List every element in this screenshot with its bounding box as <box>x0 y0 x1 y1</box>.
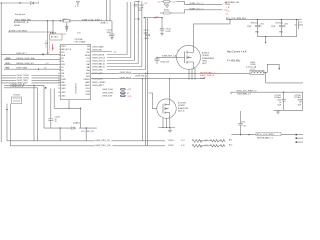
IC bottom stub x69 <box>68 100 70 109</box>
ground symbol Q2 <box>168 128 172 133</box>
power flag PWR1 <box>75 1 80 8</box>
wire y108.3 <box>54 107 80 109</box>
wire vertical x60.1 to row1 <box>59 128 61 141</box>
diode D1 <box>31 2 39 5</box>
svg-text:(SOT): (SOT) <box>202 63 207 65</box>
svg-text:C7044 1UF: C7044 1UF <box>160 62 170 64</box>
svg-text:ACTIVE/LOW__A: ACTIVE/LOW__A <box>14 21 29 24</box>
wire y128.1 bottom-left net <box>44 127 97 129</box>
capacitor C6 column x162 <box>160 17 171 36</box>
value red tick vertical <box>52 44 54 51</box>
svg-text:CHGR_ACP: CHGR_ACP <box>92 72 103 75</box>
svg-text:+.05: +.05 <box>46 53 50 55</box>
svg-text:GND: GND <box>61 96 66 98</box>
svg-text:*6.78: *6.78 <box>127 96 131 98</box>
svg-text:__SOME_LOG_#_#: __SOME_LOG_#_# <box>187 3 204 5</box>
svg-text:(SOT-3): (SOT-3) <box>178 110 185 112</box>
wire fan vertical to pin row4 <box>107 2 138 64</box>
svg-text:MICROBIAL_1.0: MICROBIAL_1.0 <box>237 92 250 95</box>
wire vertical x147.5 cap column down <box>147 18 149 74</box>
svg-text:BT011: BT011 <box>164 10 169 12</box>
svg-text:+0.9: +0.9 <box>155 16 159 18</box>
wire label2 to box <box>8 32 53 34</box>
left tight row y80.3 <box>1 79 60 82</box>
svg-text:SOME_LOGIC_SOMT_#: SOME_LOGIC_SOMT_# <box>82 19 102 21</box>
svg-text:«EN»: «EN» <box>5 68 10 70</box>
left net label row2 y59.4 <box>4 57 61 60</box>
svg-text:3.98: 3.98 <box>77 33 81 35</box>
svg-text:PB01: PB01 <box>61 46 65 48</box>
node junction x53 <box>52 20 53 21</box>
svg-text:+12: +12 <box>177 50 180 52</box>
left net label row1 y54.4 <box>1 53 60 56</box>
wire fan vertical v1 <box>106 0 108 21</box>
svg-text:GND: GND <box>61 92 66 94</box>
wire vertical x86.2 to row1 <box>85 128 87 141</box>
svg-text:BATP: BATP <box>85 81 90 84</box>
wire vertical x7 from cluster to bottom row1 <box>6 104 8 141</box>
net row ferrite 2 <box>102 92 129 95</box>
svg-text:BT7010: BT7010 <box>14 95 20 97</box>
component cluster lower-left <box>12 97 22 104</box>
svg-text:« CHGR_LVC_B: « CHGR_LVC_B <box>10 86 24 88</box>
IC U1 right pin names <box>83 46 90 96</box>
left tight row y75.5 <box>1 74 60 77</box>
svg-text:__SOME_LOG_#_#: __SOME_LOG_#_# <box>187 8 204 10</box>
wire fan vertical to pin row5 <box>107 1 142 66</box>
svg-text:45: 45 <box>127 93 129 95</box>
wire gate feed Q2 <box>149 93 157 109</box>
svg-text:F = 800 KHz: F = 800 KHz <box>227 60 241 63</box>
wire left sheet border vertical <box>0 3 2 142</box>
svg-text:CHRG06_CHGR_SDA: CHRG06_CHGR_SDA <box>16 57 35 60</box>
left tight row y82.9 <box>1 82 60 85</box>
inductor L1 <box>246 62 264 75</box>
svg-text:CHGR_CMSRC: CHGR_CMSRC <box>92 82 106 84</box>
svg-text:CRITICAL: CRITICAL <box>75 38 83 41</box>
svg-text:CHGR_CM08: CHGR_CM08 <box>16 68 27 70</box>
svg-text:BT0##_SYS_TERM_#: BT0##_SYS_TERM_# <box>257 134 275 136</box>
svg-text:A35: A35 <box>205 139 208 142</box>
wire source pins Q2 down <box>163 118 170 128</box>
wire source pins Q1 down <box>189 68 195 79</box>
svg-text:CMSRC: CMSRC <box>83 79 90 81</box>
svg-text:CHGR_ADPT: CHGR_ADPT <box>92 84 105 87</box>
left net label row4 y69.2 <box>4 68 61 70</box>
svg-text:IDPM: IDPM <box>86 94 91 96</box>
svg-text:15: 15 <box>58 88 60 90</box>
wire vertical mid x142.4 <box>141 79 143 141</box>
ground symbol cap group <box>276 110 280 114</box>
IC U1 left pin names <box>61 46 72 97</box>
svg-text:CHGR_SW_A: CHGR_SW_A <box>120 71 132 74</box>
svg-text:+4.2: +4.2 <box>113 52 117 54</box>
resistor R2 row1 <box>165 138 240 143</box>
svg-text:CHGR_TRKL_CH: CHGR_TRKL_CH <box>95 140 110 142</box>
wire drain Q1 up <box>194 20 231 46</box>
svg-text:+0.9: +0.9 <box>135 18 139 20</box>
svg-text:SCL: SCL <box>61 52 65 54</box>
svg-text:«SCL»: «SCL» <box>5 63 11 65</box>
wire vertical x80.5 <box>80 108 82 128</box>
svg-text:SW: SW <box>87 46 90 48</box>
capacitor C9 right edge vertical pair <box>295 21 304 30</box>
svg-text:SYS_PWR_DET: SYS_PWR_DET <box>81 131 95 133</box>
wire fan vertical to pin row6 <box>107 18 146 70</box>
svg-text:BT3704: BT3704 <box>50 33 56 35</box>
svg-text:17: 17 <box>58 96 60 98</box>
capacitor C5 gate <box>155 57 171 64</box>
svg-text:CHGR_SW_B: CHGR_SW_B <box>120 77 132 79</box>
left net label row3 y64.4 <box>4 63 61 65</box>
svg-text:+123: +123 <box>127 89 131 91</box>
corner texts top right <box>225 1 239 16</box>
wire y127.5 gnd rail <box>158 127 175 129</box>
svg-text:10: 10 <box>259 26 261 28</box>
node junction x47.4 <box>47 20 48 21</box>
annotation block red mid-right <box>200 71 215 79</box>
capacitor C8 bank2 <box>271 20 289 37</box>
net label row1 <box>95 139 112 142</box>
svg-text:+1.8: +1.8 <box>172 1 176 3</box>
svg-text:REGN: REGN <box>85 55 91 57</box>
svg-text:MICROBOARD_1.0: MICROBOARD_1.0 <box>257 136 273 139</box>
svg-text:GND: GND <box>145 38 150 40</box>
net wire N1 <box>177 2 227 5</box>
svg-text:3: 3 <box>59 52 60 54</box>
svg-text:14: 14 <box>58 85 60 87</box>
svg-text:2: 2 <box>59 49 60 51</box>
net label on row y78.7 second <box>135 75 148 78</box>
wire long row y78.7 <box>91 78 205 80</box>
wire vertical x10.3 from cluster to bottom row2 <box>9 104 11 146</box>
node junction on top wire <box>19 2 20 3</box>
wire gate feed Q1 <box>157 56 177 58</box>
svg-text:A#2: A#2 <box>229 143 232 146</box>
capacitor C2 top between fans <box>134 1 145 20</box>
node junction x60.3 <box>60 20 61 21</box>
svg-text:BT3704EVQ: BT3704EVQ <box>76 83 78 94</box>
wire post inductor bend <box>264 64 279 72</box>
svg-text:CHGR_IDPM: CHGR_IDPM <box>102 92 113 94</box>
svg-text:CHGR_BAT_A: CHGR_BAT_A <box>92 62 105 65</box>
wire stub with arrow x265.7 <box>265 37 267 42</box>
wire y92.2 <box>231 91 304 93</box>
svg-text:CHGR_TRKL_CH2: CHGR_TRKL_CH2 <box>95 145 110 147</box>
svg-text:+1.8: +1.8 <box>226 10 230 12</box>
wire fan vertical to pin row2 <box>107 2 131 58</box>
svg-text:SW: SW <box>87 49 90 51</box>
wire IC pin row y51.5 bst stub <box>91 51 112 53</box>
wire fan vertical to pin row1 <box>107 2 127 55</box>
svg-text:BLAH/12345: BLAH/12345 <box>178 107 188 110</box>
left tight row y77.9 <box>1 77 60 80</box>
wire long row y73.3 <box>91 72 250 74</box>
svg-text:D7(A01): D7(A01) <box>73 121 80 124</box>
svg-text:DM: DM <box>61 73 64 75</box>
svg-text:6: 6 <box>59 61 60 63</box>
wire fan vertical to pin row3 <box>107 2 135 61</box>
MOSFET Q1 ref text <box>202 53 215 65</box>
net label on row y78.7 <box>119 77 133 80</box>
wire rail continues to cap column <box>111 21 113 34</box>
wire cap bank bottom rail y36.6 <box>257 36 296 38</box>
svg-text:CHGR_GATE: CHGR_GATE <box>92 45 104 48</box>
svg-text:4: 4 <box>59 55 60 57</box>
net row ferrite 3 <box>102 95 131 98</box>
annotation tiny column <box>45 41 50 51</box>
svg-text:+_B*: +_B* <box>226 7 230 9</box>
resistor R1 series on rail <box>63 19 71 23</box>
svg-text:GND: GND <box>279 32 284 34</box>
diode zener D2 vertical <box>65 23 68 32</box>
svg-text:CHRG06_CHGR_SCL: CHRG06_CHGR_SCL <box>16 63 34 65</box>
net wire N2 <box>173 8 227 13</box>
wire top-left horizontal net <box>1 2 30 4</box>
svg-text:CHGR_BAT_B: CHGR_BAT_B <box>92 65 105 68</box>
MOSFET Q2 circle <box>157 99 176 118</box>
svg-text:GND: GND <box>255 32 260 34</box>
svg-text:CELL: CELL <box>86 88 91 90</box>
svg-text:«SDA»: «SDA» <box>5 57 11 60</box>
svg-text:9: 9 <box>59 70 60 72</box>
wire vertical mid x145.5 <box>145 73 147 146</box>
svg-text:C7V1: C7V1 <box>241 122 246 124</box>
IC U1 left pin numbers <box>58 46 60 97</box>
svg-text:BT07C02: BT07C02 <box>276 22 284 24</box>
svg-text:CHGR_ACN: CHGR_ACN <box>92 78 103 81</box>
svg-text:A#1: A#1 <box>229 138 232 141</box>
svg-text:1.1+08: 1.1+08 <box>200 77 206 79</box>
svg-text:ICHG: ICHG <box>86 91 91 93</box>
capacitor C10 on x240.6 <box>238 122 246 129</box>
rail R1 +1.8 top right <box>157 1 176 8</box>
bottom row1 y140.8 <box>7 140 240 142</box>
svg-text:4.40: 4.40 <box>181 145 185 147</box>
wire cap bank rail y19.7 <box>226 19 302 21</box>
svg-text:+SOMT_#: +SOMT_# <box>100 23 108 25</box>
wire y82.9 to right edge <box>266 72 303 83</box>
svg-text:10: 10 <box>284 26 286 28</box>
svg-text:CHGR_BST: CHGR_BST <box>92 49 103 51</box>
wire vertical x240.6 <box>240 111 242 135</box>
wire vertical x47.4 down to row1 <box>46 21 48 55</box>
svg-text:CHGR_SYS_A: CHGR_SYS_A <box>92 56 105 59</box>
svg-text:ONT_TRACE: ONT_TRACE <box>75 41 87 44</box>
svg-text:+1.8: +1.8 <box>157 1 161 3</box>
svg-text:A12: A12 <box>205 144 208 147</box>
wire drain Q2 up <box>169 79 171 99</box>
svg-text:PMID: PMID <box>61 85 66 87</box>
wire vertical x53 to box BT3704 <box>52 21 54 34</box>
svg-text:CHGR_SYS_B: CHGR_SYS_B <box>92 60 105 62</box>
capacitor C12 <box>294 92 303 110</box>
svg-text:BT004: BT004 <box>169 140 174 142</box>
capacitor C4 x50.8 column <box>48 89 59 129</box>
wire vertical x44 cont <box>43 99 45 128</box>
capacitor C11 <box>274 92 285 110</box>
svg-text:16: 16 <box>58 92 60 94</box>
MOSFET Q2 ref text <box>178 103 188 113</box>
wire net Y21 rail <box>14 20 63 22</box>
diode D3 series <box>72 121 81 129</box>
svg-text:1: 1 <box>59 46 60 48</box>
IC right net labels short <box>92 45 106 87</box>
capacitor C1 column x111.5 <box>107 30 115 40</box>
svg-text:CHGR_ICHG: CHGR_ICHG <box>102 89 113 91</box>
bottom row2 y145.8 <box>10 145 240 147</box>
svg-text:5.0: 5.0 <box>226 13 229 15</box>
wire rail +0.9 y17.7 <box>143 17 163 19</box>
svg-text:CHGR_SNS: CHGR_SNS <box>92 69 103 71</box>
svg-text:BT005: BT005 <box>169 145 174 147</box>
bottom right net wire y134.6 <box>231 134 303 136</box>
svg-text:+.15: +.15 <box>45 63 49 65</box>
svg-text:10: 10 <box>58 73 60 75</box>
net rows with ferrite ovals <box>102 88 131 91</box>
svg-text:CHGR_ILIM: CHGR_ILIM <box>102 96 112 98</box>
left row y87.8 bend down <box>4 86 46 141</box>
net label on row y73.3 <box>119 71 133 74</box>
svg-text:BAT_ALT_B: BAT_ALT_B <box>61 48 72 51</box>
arrowhead down x279.2 <box>278 68 280 70</box>
svg-text:C##: C## <box>299 22 302 24</box>
svg-text:HIGH/Z: HIGH/Z <box>14 25 21 27</box>
svg-text:+1.8: +1.8 <box>144 3 148 5</box>
component box BT3704 <box>50 33 63 40</box>
svg-text:4.48: 4.48 <box>45 43 49 45</box>
svg-text:GND: GND <box>61 88 66 90</box>
wire bottom rail y110.3 <box>273 109 303 111</box>
left row y85.4 bend down <box>4 83 44 99</box>
wire vertical mid x148.6 low <box>147 73 149 146</box>
svg-text:4.23: 4.23 <box>181 140 185 142</box>
connector stubs right edge <box>295 134 303 143</box>
IC U1 charger box <box>61 44 91 99</box>
wire vertical x54.2 <box>53 89 55 109</box>
svg-text:12345: 12345 <box>225 4 230 6</box>
svg-text:CHGR_SW_B2: CHGR_SW_B2 <box>135 76 147 78</box>
resistor R3 row2 <box>165 143 240 148</box>
wire vertical x34 <box>33 85 35 140</box>
svg-text:Max Current = mA: Max Current = mA <box>227 50 247 53</box>
wire fan vertical v2 <box>109 0 111 21</box>
net label box on y134.6 <box>256 132 281 139</box>
svg-text:CHGR_REGN: CHGR_REGN <box>92 54 105 56</box>
annotation CRITICAL trace <box>75 38 87 44</box>
svg-text:+.28: +.28 <box>43 68 47 70</box>
svg-text:ILIM: ILIM <box>61 64 65 66</box>
svg-text:CHGR_INT_L: CHGR_INT_L <box>16 53 27 55</box>
net label SOME_LOGIC_SOMT underlined <box>82 19 108 24</box>
node border junction <box>1 2 2 3</box>
capacitor C7 bank1 <box>247 20 265 37</box>
MOSFET Q1 circle <box>177 45 201 69</box>
svg-text:Fish bar limit: Fish bar limit <box>15 13 26 16</box>
svg-text:AT CHG: AT CHG <box>51 36 58 39</box>
net label PROT_SHDN underlined <box>13 19 33 27</box>
net label row2 <box>95 144 113 147</box>
capacitor C3 column x147.5 <box>144 30 151 40</box>
rail R2 +0.9 <box>155 10 173 19</box>
